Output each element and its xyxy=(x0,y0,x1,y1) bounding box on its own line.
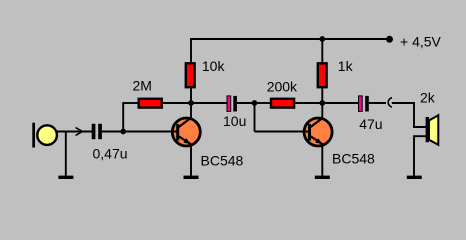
transistor Q1 BC548 body xyxy=(172,118,200,146)
node: Q2 collector node xyxy=(319,100,325,106)
wire: R2 bottom to collector node xyxy=(190,87,192,104)
svg-text:10k: 10k xyxy=(202,58,226,74)
wire: R4 right lead to Q2 collector node xyxy=(295,102,323,104)
wire: collector node down to Q2 xyxy=(321,103,323,119)
capacitor C2 10u minus plate xyxy=(233,96,237,112)
svg-text:BC548: BC548 xyxy=(332,150,375,166)
wire: collector node to C2 xyxy=(191,102,227,104)
wire: Q1 emitter to ground xyxy=(190,144,192,177)
resistor R3 1k xyxy=(318,63,327,87)
transistor Q1 collector diagonal xyxy=(178,118,191,128)
wire: corner down to speaker top terminal xyxy=(414,102,426,127)
transistor Q2 collector diagonal xyxy=(310,118,323,128)
wire: R3 bottom to collector node xyxy=(321,87,323,104)
battery terminal dot xyxy=(386,36,393,43)
wire: Q1 base lead xyxy=(123,131,177,133)
speaker driver bar xyxy=(426,117,429,142)
svg-text:10u: 10u xyxy=(223,113,246,129)
transistor Q2 BC548 body xyxy=(304,118,332,146)
svg-text:BC548: BC548 xyxy=(201,152,244,168)
node: Q1 collector node xyxy=(188,100,194,106)
capacitor C3 47u minus plate xyxy=(365,96,369,112)
microphone capsule xyxy=(37,125,57,145)
wire: mic to ground xyxy=(65,132,67,177)
node: rail / R3 junction xyxy=(319,36,325,42)
transistor Q1 emitter arrow xyxy=(184,138,191,144)
transistor Q2 emitter diagonal xyxy=(310,136,323,144)
microphone body bar xyxy=(32,123,35,148)
wire: hook to corner xyxy=(392,102,414,104)
wire: V+ supply rail xyxy=(191,38,390,40)
ground (speaker) xyxy=(407,176,422,179)
transistor Q1 base bar xyxy=(176,124,179,141)
wire: rail down to R2 top xyxy=(190,38,192,63)
speaker cone xyxy=(429,115,438,145)
wire: to R1 left lead xyxy=(122,102,138,104)
ground (Q1) xyxy=(184,176,199,179)
capacitor C3 47u plus plate xyxy=(359,96,363,112)
svg-text:+ 4,5V: + 4,5V xyxy=(400,33,442,49)
wire: R1 right lead to collector node xyxy=(163,102,192,104)
svg-text:47u: 47u xyxy=(359,116,382,132)
resistor R2 10k xyxy=(186,63,195,87)
ground (mic) xyxy=(58,176,73,179)
node: C2 / R4 / Q2-base junction xyxy=(252,100,258,106)
transistor Q2 emitter arrow xyxy=(315,138,322,144)
wire: Q2 emitter to ground xyxy=(321,144,323,177)
transistor Q2 base bar xyxy=(308,124,311,141)
wire: mic output xyxy=(56,131,92,133)
wire: collector node down to Q1 xyxy=(190,103,192,119)
wire: C1 to base node xyxy=(102,131,124,133)
wire: C3 to connector hook xyxy=(369,102,386,104)
wire: rail down to R3 top xyxy=(321,38,323,63)
node: Q1 base node xyxy=(120,129,126,135)
svg-text:0,47u: 0,47u xyxy=(93,145,128,161)
capacitor C1 0,47u plate A xyxy=(92,124,96,139)
svg-text:2M: 2M xyxy=(133,77,152,93)
wire: C2 to node xyxy=(237,102,255,104)
wire: node to R4 left lead xyxy=(255,102,271,104)
resistor R1 2M xyxy=(139,99,162,108)
svg-text:1k: 1k xyxy=(338,58,354,74)
svg-text:2k: 2k xyxy=(420,90,436,106)
wire: node down to base level xyxy=(254,103,256,132)
connector arrow (input) xyxy=(76,128,83,136)
svg-text:200k: 200k xyxy=(267,78,298,94)
resistor R4 200k xyxy=(271,99,294,108)
wire: speaker bottom terminal to ground xyxy=(414,136,426,176)
wire: Q2 collector node to C3 xyxy=(322,102,358,104)
ground (Q2) xyxy=(315,176,330,179)
capacitor C2 10u plus plate xyxy=(227,96,231,112)
connector hook (output) xyxy=(388,98,392,107)
wire: Q2 base lead xyxy=(255,131,310,133)
capacitor C1 0,47u plate B xyxy=(98,124,102,139)
transistor Q1 emitter diagonal xyxy=(178,136,191,144)
wire: base node up to R1 level xyxy=(122,103,124,132)
